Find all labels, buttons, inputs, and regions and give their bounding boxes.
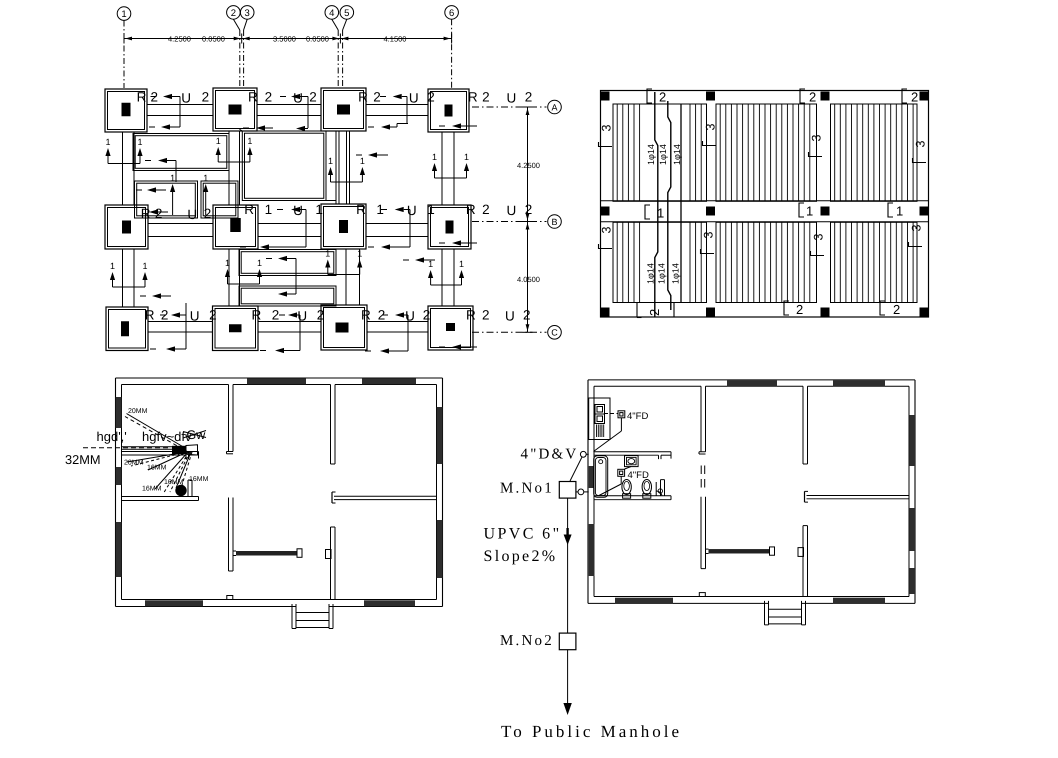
svg-text:R: R bbox=[468, 90, 478, 105]
svg-text:U: U bbox=[505, 309, 515, 324]
svg-text:U: U bbox=[297, 309, 307, 324]
svg-text:1: 1 bbox=[427, 202, 435, 217]
svg-text:1: 1 bbox=[203, 173, 208, 183]
slab panel outline bay2 B-C lower bbox=[239, 286, 336, 306]
svg-text:R: R bbox=[361, 308, 371, 323]
svg-text:5: 5 bbox=[344, 8, 349, 19]
svg-text:R: R bbox=[248, 90, 258, 105]
reinforcement arrow bay1 B-C bbox=[152, 293, 161, 298]
water meter symbol bbox=[172, 446, 186, 454]
top dimension line bbox=[124, 38, 452, 40]
slab label 2 top panels bbox=[647, 89, 652, 103]
svg-text:3: 3 bbox=[914, 141, 928, 148]
svg-text:2: 2 bbox=[796, 302, 803, 317]
grid centerline B bbox=[472, 221, 547, 223]
svg-text:R: R bbox=[137, 90, 147, 105]
svg-text:1φ14: 1φ14 bbox=[672, 144, 682, 165]
svg-text:1: 1 bbox=[216, 136, 221, 146]
grid bubble 6 bbox=[445, 6, 459, 20]
svg-text:2: 2 bbox=[525, 202, 533, 217]
svg-text:U: U bbox=[407, 203, 417, 218]
svg-text:1: 1 bbox=[106, 137, 111, 147]
slab panel top-middle with hatch bbox=[716, 104, 817, 201]
svg-text:1: 1 bbox=[325, 249, 330, 259]
svg-text:U: U bbox=[293, 91, 303, 106]
svg-text:R: R bbox=[252, 308, 262, 323]
water pipe dashed line bbox=[83, 447, 171, 449]
svg-text:U: U bbox=[293, 203, 303, 218]
svg-text:1φ14: 1φ14 bbox=[646, 263, 656, 284]
svg-text:1: 1 bbox=[432, 152, 437, 162]
beam column grid2-3 bbox=[228, 131, 230, 205]
svg-text:U: U bbox=[507, 203, 517, 218]
svg-text:1φ14: 1φ14 bbox=[646, 144, 656, 165]
slab panel outline bay2 A-B bbox=[242, 131, 326, 201]
svg-text:2: 2 bbox=[482, 90, 490, 105]
door dashes corridor bbox=[700, 466, 702, 475]
slab panel outline bay1 A-B small room left bbox=[135, 181, 198, 218]
grid centerline A bbox=[472, 106, 547, 108]
grid centerline 4/5 bbox=[332, 19, 338, 30]
svg-text:32MM: 32MM bbox=[65, 452, 101, 467]
column C2B bbox=[213, 205, 258, 249]
svg-text:2: 2 bbox=[911, 90, 918, 105]
svg-text:2: 2 bbox=[231, 8, 236, 19]
floor drain 2 square bbox=[618, 469, 625, 476]
svg-text:1: 1 bbox=[806, 204, 813, 219]
svg-text:Slope2%: Slope2% bbox=[484, 548, 558, 565]
slab panel outline bay1 A-B upper bbox=[133, 134, 229, 171]
svg-text:2: 2 bbox=[209, 308, 217, 323]
svg-text:4"D&V: 4"D&V bbox=[521, 447, 579, 463]
slab panel outline bay1 A-B small room right bbox=[201, 181, 238, 218]
svg-text:2: 2 bbox=[482, 202, 490, 217]
floor drain 2 pipe bbox=[620, 476, 622, 484]
svg-text:2: 2 bbox=[659, 90, 666, 105]
svg-text:2: 2 bbox=[809, 90, 816, 105]
svg-text:1: 1 bbox=[170, 173, 175, 183]
slab panel bottom-middle with hatch bbox=[716, 222, 817, 302]
svg-text:2: 2 bbox=[482, 308, 490, 323]
floor plan right (drainage) bbox=[588, 380, 915, 625]
reinforcement arrow bay3 A-B bbox=[368, 152, 377, 157]
grid bubble 3 bbox=[240, 6, 254, 20]
grid bubble 5 bbox=[340, 6, 354, 20]
slab label 1 middle band bbox=[645, 205, 650, 219]
slab panel top-left with hatch bbox=[613, 104, 707, 201]
water pipe double line bbox=[122, 446, 173, 448]
svg-text:1: 1 bbox=[896, 204, 903, 219]
svg-text:M.No1: M.No1 bbox=[500, 481, 554, 497]
grid centerline 6 bbox=[451, 19, 453, 88]
bent bar 3 bbox=[680, 104, 682, 303]
svg-text:2: 2 bbox=[523, 308, 531, 323]
svg-text:4: 4 bbox=[329, 8, 334, 19]
slab columns (filled) bbox=[601, 92, 610, 101]
svg-text:U: U bbox=[405, 309, 415, 324]
svg-text:U: U bbox=[409, 91, 419, 106]
bathtub bbox=[594, 456, 608, 498]
svg-text:2: 2 bbox=[204, 206, 212, 221]
svg-text:4"FD: 4"FD bbox=[627, 411, 648, 422]
vent pipe circle bbox=[580, 451, 586, 457]
svg-text:1: 1 bbox=[328, 156, 333, 166]
svg-text:2: 2 bbox=[317, 308, 325, 323]
floor drain 1 dashed pipe bbox=[605, 413, 618, 415]
svg-text:R: R bbox=[466, 202, 476, 217]
column C1C bbox=[106, 307, 148, 351]
column C4C bbox=[428, 306, 473, 350]
drain line to public manhole bbox=[567, 650, 569, 704]
grid centerline 2/3 bbox=[233, 19, 239, 30]
svg-text:R: R bbox=[145, 308, 155, 323]
svg-text:1: 1 bbox=[657, 206, 664, 221]
beam row C bbox=[148, 321, 213, 323]
column C2C bbox=[213, 306, 259, 351]
svg-text:B: B bbox=[551, 217, 557, 227]
svg-text:3: 3 bbox=[812, 234, 826, 241]
svg-text:M.No2: M.No2 bbox=[500, 633, 554, 649]
svg-text:1: 1 bbox=[265, 202, 273, 217]
svg-text:1φ14: 1φ14 bbox=[657, 263, 667, 284]
floor trap circle bbox=[176, 485, 186, 495]
svg-text:1: 1 bbox=[315, 202, 323, 217]
grid centerline C bbox=[472, 331, 547, 333]
reinforcement arrow bay4 rows bbox=[452, 123, 461, 128]
slab middle beam band bbox=[601, 200, 929, 202]
svg-text:2: 2 bbox=[423, 308, 431, 323]
svg-text:U: U bbox=[507, 91, 517, 106]
svg-text:4.1500: 4.1500 bbox=[384, 34, 407, 43]
svg-text:1: 1 bbox=[247, 136, 252, 146]
column C3A bbox=[321, 88, 366, 131]
svg-text:1: 1 bbox=[257, 258, 262, 268]
svg-text:R: R bbox=[244, 202, 254, 217]
svg-text:2: 2 bbox=[525, 90, 533, 105]
svg-text:UPVC 6": UPVC 6" bbox=[484, 526, 562, 543]
svg-text:16MM: 16MM bbox=[189, 476, 209, 483]
svg-text:1φ14: 1φ14 bbox=[658, 144, 668, 165]
column C1A bbox=[105, 89, 147, 132]
grid bubble 1 bbox=[117, 7, 131, 21]
grid centerline 1 bbox=[123, 21, 125, 89]
svg-text:0.0500: 0.0500 bbox=[306, 34, 329, 43]
svg-text:U: U bbox=[187, 207, 197, 222]
svg-text:U: U bbox=[190, 309, 200, 324]
column C4B bbox=[428, 205, 471, 249]
manhole M.No2 bbox=[559, 633, 576, 650]
manhole1 connector circle bbox=[578, 489, 584, 495]
svg-text:R: R bbox=[358, 90, 368, 105]
svg-text:1: 1 bbox=[143, 261, 148, 271]
svg-text:R: R bbox=[466, 308, 476, 323]
UPVC drain line down bbox=[567, 498, 569, 633]
svg-text:C: C bbox=[551, 328, 558, 338]
svg-text:3: 3 bbox=[702, 232, 716, 239]
section marks 1 bay1 inner bbox=[170, 184, 175, 192]
column C3B bbox=[321, 204, 366, 249]
svg-text:1: 1 bbox=[360, 156, 365, 166]
svg-text:1: 1 bbox=[138, 137, 143, 147]
beam column grid1 bbox=[122, 132, 124, 205]
svg-text:1: 1 bbox=[225, 258, 230, 268]
svg-text:20MM: 20MM bbox=[124, 460, 144, 467]
svg-text:1: 1 bbox=[121, 9, 126, 20]
drain line vent to manhole1 bbox=[570, 457, 582, 481]
svg-text:2: 2 bbox=[265, 90, 273, 105]
reinforcement arrow bay1 A-B bbox=[158, 158, 167, 163]
svg-text:3: 3 bbox=[600, 227, 614, 234]
grid bubble A bbox=[548, 100, 562, 114]
column C1B bbox=[105, 205, 148, 249]
svg-text:1: 1 bbox=[464, 152, 469, 162]
svg-text:1: 1 bbox=[357, 249, 362, 259]
svg-text:3: 3 bbox=[704, 124, 718, 131]
svg-text:4.2500: 4.2500 bbox=[517, 161, 540, 170]
manhole M.No1 bbox=[559, 482, 576, 499]
slab label 2 bottom panels bbox=[784, 301, 789, 315]
toilet 2 bbox=[642, 480, 651, 495]
slab panel bottom-right with hatch bbox=[831, 222, 918, 302]
svg-text:3.5000: 3.5000 bbox=[273, 34, 296, 43]
grid bubble 2 bbox=[227, 6, 241, 20]
beam column grid6 bbox=[441, 132, 443, 205]
svg-text:0.0500: 0.0500 bbox=[202, 34, 225, 43]
svg-text:16MM: 16MM bbox=[147, 465, 167, 472]
bathroom door leaf bbox=[655, 482, 657, 496]
svg-text:To Public Manhole: To Public Manhole bbox=[501, 722, 682, 741]
toilet 1 bbox=[622, 480, 631, 495]
slab panel bottom-left with hatch bbox=[613, 222, 707, 302]
svg-text:2: 2 bbox=[373, 90, 381, 105]
svg-text:2: 2 bbox=[893, 302, 900, 317]
bent bar 2 bbox=[668, 101, 671, 310]
beam column grid4-5 bbox=[335, 131, 337, 204]
beam row B bbox=[148, 223, 213, 225]
kitchen unit bbox=[589, 398, 610, 440]
svg-text:U: U bbox=[181, 91, 191, 106]
svg-text:3: 3 bbox=[245, 8, 250, 19]
section marks 1 row B-C bbox=[113, 286, 146, 288]
svg-text:2: 2 bbox=[272, 308, 280, 323]
svg-text:1: 1 bbox=[459, 259, 464, 269]
svg-text:3: 3 bbox=[810, 135, 824, 142]
floor plan left (water supply) bbox=[116, 378, 443, 629]
grid bubble B bbox=[548, 215, 562, 229]
column C4A bbox=[428, 89, 469, 132]
pipe branch 20MM up bbox=[127, 414, 187, 449]
svg-text:4.2500: 4.2500 bbox=[168, 34, 191, 43]
pipe branches fan bbox=[127, 452, 186, 462]
washbasin bbox=[625, 456, 639, 467]
reinforcement arrow bay3 B-C bbox=[415, 257, 424, 262]
reinforcement arrow bay2 B-C bbox=[278, 256, 287, 261]
grid bubble C bbox=[548, 326, 562, 340]
flow arrow 1 bbox=[566, 528, 568, 537]
svg-text:1φ14: 1φ14 bbox=[671, 263, 681, 284]
slab panel outline bay2 B-C upper bbox=[239, 250, 336, 276]
column C3C bbox=[321, 305, 367, 350]
slab outer boundary bbox=[601, 91, 929, 318]
svg-text:R: R bbox=[356, 202, 366, 217]
svg-text:A: A bbox=[551, 102, 557, 112]
svg-text:2: 2 bbox=[647, 309, 662, 316]
svg-text:1: 1 bbox=[110, 261, 115, 271]
svg-text:2: 2 bbox=[427, 90, 435, 105]
svg-text:4.0500: 4.0500 bbox=[517, 275, 540, 284]
bent bar 1 bbox=[655, 92, 658, 317]
flow arrow 2 bbox=[563, 703, 571, 715]
svg-text:hgd',': hgd',' bbox=[97, 429, 127, 444]
column C2A bbox=[213, 88, 257, 131]
windows left plan bbox=[247, 378, 306, 384]
grid bubble 4 bbox=[325, 6, 339, 20]
svg-text:R: R bbox=[141, 206, 151, 221]
svg-text:3: 3 bbox=[910, 225, 924, 232]
windows right plan bbox=[727, 380, 777, 386]
svg-text:3: 3 bbox=[600, 125, 614, 132]
svg-text:6: 6 bbox=[449, 8, 454, 19]
svg-text:hgfv~dfv: hgfv~dfv bbox=[142, 429, 192, 444]
slab panel top-right with hatch bbox=[831, 104, 918, 201]
svg-text:16MM: 16MM bbox=[142, 486, 162, 493]
svg-text:20MM: 20MM bbox=[128, 408, 148, 415]
section marks 1 row A-B bbox=[108, 163, 140, 165]
svg-text:2: 2 bbox=[202, 90, 210, 105]
right dimension line bbox=[527, 107, 529, 332]
beam row A bbox=[147, 104, 213, 106]
floor drain 1 square bbox=[618, 411, 625, 418]
svg-text:2: 2 bbox=[309, 90, 317, 105]
